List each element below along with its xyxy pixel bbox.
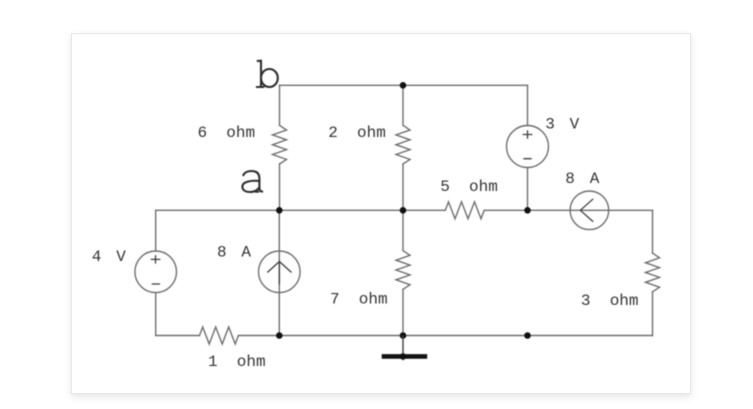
wire right vertical upper bbox=[652, 210, 654, 253]
svg-text:4 V: 4 V bbox=[92, 248, 129, 266]
wire 4V branch lower bbox=[155, 293, 157, 336]
wire 6-ohm branch lower bbox=[279, 164, 281, 210]
wire mid node a horizontal left bbox=[156, 209, 446, 211]
wire left 8A branch shaft bbox=[278, 251, 280, 293]
resistor R 2 ohm zigzag bbox=[396, 125, 410, 164]
svg-text:7 ohm: 7 ohm bbox=[330, 291, 388, 309]
wire left 8A branch lower bbox=[278, 293, 280, 336]
arrow of left 8A source (up) bbox=[268, 262, 291, 285]
wire 2-ohm branch lower bbox=[402, 164, 404, 210]
resistor R 6 ohm zigzag bbox=[273, 125, 287, 164]
plus sign of 4V source bbox=[151, 256, 160, 263]
junction dot mid at 3V bbox=[524, 207, 531, 214]
wire 3V branch lower bbox=[527, 168, 529, 211]
svg-text:5 ohm: 5 ohm bbox=[440, 178, 498, 196]
resistor R 7 ohm zigzag bbox=[396, 251, 410, 290]
node label b glyph bbox=[257, 61, 278, 88]
minus sign of 3V source bbox=[524, 158, 531, 160]
minus sign of 4V source bbox=[152, 283, 159, 285]
junction dot at ground bar bbox=[400, 353, 407, 360]
junction dot bottom at 3V branch bbox=[524, 332, 531, 339]
voltage source V 3V circle bbox=[507, 126, 549, 168]
ground stub bbox=[402, 336, 404, 361]
wire mid node a horizontal right bbox=[484, 209, 652, 211]
wire 7-ohm branch lower bbox=[402, 289, 404, 335]
plus sign of 3V source bbox=[523, 131, 532, 138]
svg-text:6 ohm: 6 ohm bbox=[198, 124, 256, 142]
arrow of right 8A source (left) bbox=[580, 199, 593, 221]
junction dot bottom at ground bbox=[400, 332, 407, 339]
junction dot bottom at 8A-left bbox=[276, 332, 283, 339]
junction dot mid at 8A-left bbox=[276, 207, 283, 214]
resistor R 5 ohm zigzag bbox=[445, 202, 484, 219]
wire bottom horizontal right bbox=[238, 335, 652, 337]
wire 3V branch upper bbox=[527, 85, 529, 125]
wire right vertical lower bbox=[652, 292, 654, 336]
resistor R 1 ohm zigzag bbox=[200, 327, 239, 344]
ground bar bbox=[382, 354, 428, 359]
voltage source V 4V circle bbox=[135, 251, 177, 293]
svg-text:3 ohm: 3 ohm bbox=[581, 292, 639, 310]
wire top node b horizontal bbox=[280, 84, 528, 86]
wire 7-ohm branch upper bbox=[402, 210, 404, 250]
wire 2-ohm branch upper bbox=[402, 85, 404, 125]
wire bottom horizontal left bbox=[156, 335, 200, 337]
wire 4V branch upper bbox=[155, 210, 157, 251]
junction dot top at 2-ohm bbox=[400, 82, 407, 89]
svg-text:3 V: 3 V bbox=[545, 116, 582, 134]
svg-text:1 ohm: 1 ohm bbox=[208, 353, 266, 371]
svg-text:2 ohm: 2 ohm bbox=[328, 124, 386, 142]
wire left 8A branch upper bbox=[278, 210, 280, 251]
wire 6-ohm branch upper bbox=[279, 85, 281, 125]
svg-text:8 A: 8 A bbox=[565, 170, 602, 188]
current source I 8A right circle bbox=[570, 191, 609, 230]
current source I 8A left circle bbox=[259, 251, 301, 293]
node label a glyph bbox=[242, 171, 262, 192]
resistor R 3 ohm zigzag bbox=[646, 253, 660, 292]
svg-text:8 A: 8 A bbox=[217, 244, 254, 262]
junction dot mid at 7-ohm bbox=[400, 207, 407, 214]
